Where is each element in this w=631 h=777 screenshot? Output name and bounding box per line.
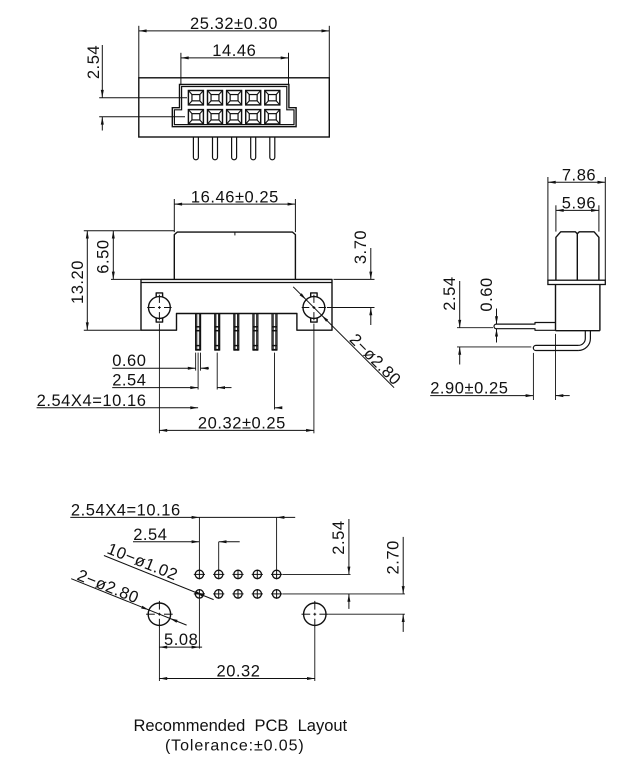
dim 25.32±0.30 (top view width) bbox=[139, 15, 329, 78]
dim 2.54 (PCB row pitch) bbox=[330, 519, 350, 609]
dim 2.90±0.25 (pin protrusion) bbox=[430, 334, 570, 400]
dim 5.08 (hole to first pad) bbox=[159, 631, 202, 649]
top view: socket hole r2c4 bbox=[246, 110, 261, 124]
dim 6.50 (cap height) bbox=[95, 231, 141, 280]
svg-text:3.70: 3.70 bbox=[352, 230, 370, 264]
PCB pad r2c2 bbox=[213, 589, 224, 599]
top view: socket hole r2c1 bbox=[188, 110, 203, 124]
front view: right hole centerline / 20.32 extension bbox=[313, 324, 315, 434]
PCB pad r2c4 bbox=[252, 589, 263, 599]
top view: socket hole r2c3 bbox=[227, 110, 242, 124]
dim 2.54 (row offset, side view) bbox=[441, 276, 531, 364]
dim 16.46±0.25 (cap width) bbox=[174, 188, 295, 232]
dim 2.54 (pin pitch, front view) bbox=[112, 353, 231, 390]
top view: socket hole r1c2 bbox=[208, 91, 223, 105]
svg-text:0.60: 0.60 bbox=[112, 352, 146, 370]
svg-text:20.32±0.25: 20.32±0.25 bbox=[198, 415, 286, 433]
side view: bent pin (lower row) bbox=[533, 331, 590, 351]
svg-text:6.50: 6.50 bbox=[95, 239, 113, 273]
dim 13.20 (overall height) bbox=[69, 231, 141, 331]
leader 10-ø1.02 (pads) bbox=[104, 540, 214, 600]
PCB pad r1c2 bbox=[213, 570, 224, 580]
front view: left mounting hole bbox=[147, 293, 171, 322]
PCB pad r1c4 bbox=[252, 570, 263, 580]
dim 7.86 (lip width) bbox=[548, 167, 605, 281]
dim 2.54X4=10.16 (PCB) bbox=[70, 502, 295, 649]
extension line: pad row 1 (right) bbox=[283, 573, 351, 575]
svg-text:16.46±0.25: 16.46±0.25 bbox=[191, 188, 279, 206]
svg-text:13.20: 13.20 bbox=[69, 260, 87, 304]
dim 2.54 (row pitch, top view) bbox=[85, 45, 187, 131]
dim 2.54 (PCB column pitch) bbox=[133, 526, 240, 570]
side view: cap right half bbox=[577, 232, 599, 280]
PCB pad r1c3 bbox=[232, 570, 243, 580]
svg-text:5.08: 5.08 bbox=[164, 631, 198, 649]
PCB pad r1c5 bbox=[271, 570, 282, 580]
top view: socket hole r1c1 bbox=[188, 91, 203, 105]
extension line: pad row 2 (right) bbox=[283, 593, 405, 595]
svg-text:2.54: 2.54 bbox=[133, 526, 167, 544]
PCB pad r2c1 bbox=[194, 589, 205, 599]
top view: socket hole r2c5 bbox=[265, 110, 280, 124]
top view: insulator shell outline bbox=[172, 84, 296, 126]
top view: pin 3 bbox=[232, 137, 237, 160]
svg-text:2.70: 2.70 bbox=[385, 540, 403, 574]
PCB right hole centerline / extension bbox=[315, 614, 405, 681]
leader 2-Ø2.80 (PCB holes) bbox=[71, 566, 186, 625]
front view: pin 1 bbox=[196, 314, 201, 351]
front view: pin 2 bbox=[215, 314, 220, 351]
top view: socket hole r1c5 bbox=[265, 91, 280, 105]
PCB pad r1c1 bbox=[194, 570, 205, 580]
top view: socket hole r1c4 bbox=[246, 91, 261, 105]
svg-text:2.54X4=10.16: 2.54X4=10.16 bbox=[71, 502, 181, 520]
front view: pin 5 bbox=[272, 314, 277, 351]
svg-text:(Tolerance:±0.05): (Tolerance:±0.05) bbox=[165, 738, 305, 755]
dim 0.60 (pin width) bbox=[112, 352, 209, 370]
top view: socket hole r2c2 bbox=[208, 110, 223, 124]
front view: right mounting hole bbox=[302, 293, 326, 322]
PCB pad r2c5 bbox=[271, 589, 282, 599]
svg-text:2.90±0.25: 2.90±0.25 bbox=[430, 379, 508, 397]
svg-text:2.54: 2.54 bbox=[441, 276, 459, 310]
PCB pad r2c3 bbox=[232, 589, 243, 599]
svg-text:2.54: 2.54 bbox=[330, 520, 348, 554]
front view: pin 3 bbox=[234, 314, 239, 351]
svg-text:14.46: 14.46 bbox=[212, 42, 256, 60]
front view: left hole centerline / 20.32 extension bbox=[158, 324, 160, 434]
leader 2-Ø2.80 (front view holes) bbox=[293, 287, 404, 389]
front view: pin 4 bbox=[253, 314, 258, 351]
top view: pin 5 bbox=[270, 137, 275, 160]
front view: upper body cap bbox=[174, 232, 295, 279]
svg-text:25.32±0.30: 25.32±0.30 bbox=[190, 15, 278, 33]
dim 3.70 (flange top to hole center) bbox=[327, 230, 375, 325]
front view: mounting flange bbox=[141, 279, 332, 330]
dim 5.96 (cap depth) bbox=[556, 195, 599, 232]
svg-text:2.54: 2.54 bbox=[85, 45, 103, 79]
top view: connector outer body bbox=[139, 78, 329, 137]
dim 20.32 (PCB hole span) bbox=[159, 663, 314, 681]
svg-text:7.86: 7.86 bbox=[562, 167, 596, 185]
top view: pin 4 bbox=[251, 137, 256, 160]
dim 14.46 (shell width) bbox=[181, 42, 289, 84]
extension line: cap top (left) bbox=[84, 230, 174, 232]
side view: straight pin (upper row) bbox=[494, 323, 556, 331]
top view: socket hole r1c3 bbox=[227, 91, 242, 105]
svg-text:2.54: 2.54 bbox=[112, 372, 146, 390]
svg-text:20.32: 20.32 bbox=[216, 663, 260, 681]
dim 20.32±0.25 (hole span, front view) bbox=[159, 415, 314, 433]
caption: Recommended PCB Layout bbox=[133, 717, 347, 755]
side view: body below lip bbox=[556, 285, 600, 331]
svg-text:0.60: 0.60 bbox=[478, 277, 496, 311]
dim 0.60 (pin thickness, side view) bbox=[478, 277, 498, 342]
side view: flange lip bbox=[548, 280, 605, 284]
svg-text:Recommended PCB Layout: Recommended PCB Layout bbox=[133, 717, 347, 735]
dim 2.54X4=10.16 (front view) bbox=[37, 353, 283, 410]
PCB left hole centerline / extension bbox=[158, 628, 160, 682]
svg-text:5.96: 5.96 bbox=[562, 195, 596, 213]
PCB right mounting hole bbox=[302, 601, 329, 628]
PCB left mounting hole bbox=[146, 601, 173, 628]
top view: pin 1 bbox=[193, 137, 198, 160]
top view: pin 2 bbox=[213, 137, 218, 160]
side view: cap left half bbox=[556, 232, 577, 280]
dim 2.70 (row 2 to hole center) bbox=[385, 537, 405, 632]
svg-text:2.54X4=10.16: 2.54X4=10.16 bbox=[37, 392, 147, 410]
